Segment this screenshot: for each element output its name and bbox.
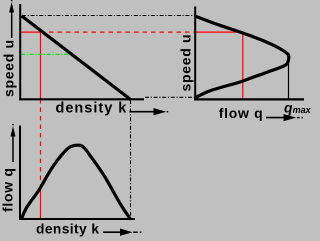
speed-density line [22, 16, 131, 100]
red solid vertical right plot [242, 33, 244, 99]
qmax marker line [288, 56, 290, 100]
left x-label arrow [130, 108, 169, 115]
left plot y-axis [19, 4, 21, 100]
svg-text:density k: density k [56, 100, 128, 116]
dash-dot connector top (free-flow speed level) [22, 15, 195, 17]
svg-text:flow q: flow q [219, 105, 264, 121]
svg-text:speed u: speed u [178, 34, 194, 92]
right plot y-axis [194, 7, 196, 101]
red dashed horizontal between plots [41, 31, 196, 33]
svg-text:speed u: speed u [1, 39, 17, 97]
right x-label arrow [266, 114, 303, 121]
bottom plot y-axis [19, 126, 21, 221]
flow-density curve [22, 145, 131, 218]
bottom plot x-axis [20, 218, 135, 220]
left plot x-axis [19, 98, 144, 100]
bottom y-label arrow [11, 124, 16, 162]
right plot x-axis [194, 98, 304, 100]
dash-dot connector mid (u=0 axis level) [145, 96, 195, 98]
red solid horizontal right plot [196, 31, 238, 33]
svg-text:flow q: flow q [0, 167, 15, 212]
red solid vertical left plot [40, 32, 42, 99]
bottom x-label arrow [103, 229, 141, 236]
speed-flow curve [196, 16, 289, 97]
dash-dot vertical jam-density connector [130, 100, 132, 219]
svg-text:density k: density k [36, 222, 99, 237]
red dashed vertical between plots [40, 99, 42, 187]
red solid horizontal left plot [21, 31, 41, 33]
green dash-dot speed level [21, 53, 70, 55]
red solid vertical bottom plot [40, 187, 42, 219]
left y-label arrow [9, 0, 14, 38]
